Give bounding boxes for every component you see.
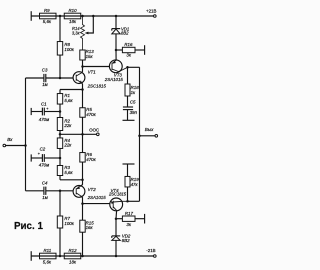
wire rail to VD1 [115,16,117,29]
wire C4 to VT2 base [46,190,74,192]
svg-text:R9: R9 [44,8,50,13]
svg-text:18к: 18к [69,19,77,24]
svg-text:8В2: 8В2 [121,30,129,35]
svg-text:8В2: 8В2 [122,238,130,243]
svg-text:-21В: -21В [146,248,155,253]
label R12 [69,248,78,253]
capacitor C1 470u [31,108,60,116]
value R3 5.6k [64,170,73,175]
svg-text:2SA1015: 2SA1015 [87,195,107,200]
capacitor C3 [44,74,46,82]
label C1 [41,102,47,107]
terminal -21V [154,255,157,258]
node VT1 collector / VT3 base [81,65,84,68]
node rail-R15 [81,255,84,258]
label C5 [130,100,136,105]
value R14 3.3k [72,31,81,36]
resistor R6 [80,134,85,180]
resistor R15 [80,220,85,232]
svg-text:C3: C3 [42,68,48,73]
value R18 1k [131,90,136,95]
label VT1 type 2SC1815 [87,83,107,88]
node rail-R14 [81,15,84,18]
svg-text:470к: 470к [86,157,96,162]
svg-text:15к: 15к [86,54,94,59]
svg-text:5,6к: 5,6к [43,19,52,24]
label VT2 [88,187,97,192]
wire input to C3 [26,77,44,79]
svg-text:5,6к: 5,6к [64,98,73,103]
svg-text:R16: R16 [124,42,133,47]
wire VT2 emitter [81,180,82,186]
svg-text:1м: 1м [42,82,47,87]
wire VT4 base [83,203,111,205]
node VT4 collector [126,200,129,203]
svg-text:470к: 470к [86,112,96,117]
value C1 470u [39,117,49,122]
svg-text:18к: 18к [69,259,77,264]
value C2 470u [39,162,49,167]
wire node to R16 [116,49,122,51]
value C5 39p [130,110,138,115]
node output [138,135,141,138]
svg-text:R17: R17 [125,211,134,216]
svg-text:2SC1815: 2SC1815 [108,192,127,197]
caption Ris. 1 [14,221,43,232]
node R8-base junction [59,77,62,80]
label R9 [44,8,50,13]
resistor R7 [57,216,62,228]
label R18 [131,85,140,90]
svg-text:Вх: Вх [7,137,13,142]
node rail-VD1 [115,15,118,18]
node rail-wiper [92,15,95,18]
node VT3 collector [126,66,129,69]
value R13 15k [86,54,94,59]
resistor R18 [125,84,130,96]
wire VT1 collector [82,67,83,73]
label VT3 [114,73,123,78]
svg-text:VT1: VT1 [88,69,97,74]
svg-text:470м: 470м [39,117,49,122]
wire VT4 emitter [115,210,118,218]
transistor VT3 2SA1015 [109,60,127,73]
terminal output Vyh [155,135,158,138]
label R14 [72,26,80,31]
wire node to R17 [116,218,122,220]
wire R18 to C5 [127,96,129,107]
svg-text:100к: 100к [64,47,74,52]
node A (R9-R10 junction) [59,15,62,18]
common T-bar R17 [144,214,146,224]
wire VT3 collector to output column [128,66,140,68]
svg-text:R10: R10 [69,8,78,13]
resistor R13 [80,50,85,60]
value R8 100k [64,47,74,52]
wire Vx to input line [6,145,26,147]
node R2-R4 junction [59,133,62,136]
node VT4 emitter / R17 [115,217,118,220]
node C1 junction [59,110,62,113]
resistor R9 [40,13,57,19]
wire R17 to T-bar [135,218,145,220]
svg-text:2SA1015: 2SA1015 [104,77,124,82]
node rail-VD2 [115,255,118,258]
svg-text:5,6к: 5,6к [64,170,73,175]
common T-bar R19 [123,163,135,165]
common T-bar top left [30,11,32,21]
value R17 3k [126,222,131,227]
transistor VT4 2SC1815 [110,198,128,211]
label R4 [64,138,70,143]
wire VT3 base [83,66,110,68]
svg-text:C5: C5 [130,100,136,105]
wire R19 to node [127,187,129,201]
wire R16 to T-bar [135,49,145,51]
value R19 47k [131,182,139,187]
wire R15 to rail [82,232,84,256]
svg-text:Рис. 1: Рис. 1 [14,221,43,232]
wire node A to R8 [59,16,61,42]
wire OOC [60,133,96,135]
node VD1-R16-VT3 [115,49,118,52]
value R12 18k [69,259,77,264]
wire R3 to VT2 emitter [60,179,83,181]
capacitor C5 39p [123,107,133,120]
svg-text:16к: 16к [86,225,94,230]
value R9 5.6k [43,19,52,24]
wire VT3 emitter [115,50,117,60]
terminal OOC [97,133,100,136]
node input line [24,144,27,147]
value R4 22k [63,143,72,148]
transistor VT2 2SA1015 [73,186,85,198]
value R7 100k [64,221,74,226]
value R1 5.6k [64,98,73,103]
node R5-R6 junction [81,133,84,136]
polarity + C2 [38,152,41,156]
label -21V [146,248,155,253]
resistor R17 [122,216,135,221]
label R2 [64,118,70,123]
value R16 3k [126,53,131,58]
wire VT4 collector to output column [128,200,140,202]
node C2 junction [59,157,62,160]
label R16 [124,42,133,47]
value R5 470k [86,112,96,117]
resistor R19 [125,176,130,187]
label VT1 [88,69,97,74]
label Vyh [145,127,154,132]
svg-text:470м: 470м [39,162,49,167]
label VT4 [111,188,120,193]
resistor R10 [64,13,81,19]
value VD1 8V2 [121,30,129,35]
wire T-bar to R19 [127,164,129,176]
wire to output terminal [140,135,156,137]
transistor VT1 2SC1815 [73,72,85,84]
node VT1 emitter [81,88,84,91]
svg-text:3,3к: 3,3к [72,31,81,36]
label VT4 type 2SC1815 [108,192,127,197]
label R11 [44,248,52,253]
svg-text:C1: C1 [41,102,47,107]
value R15 16k [86,225,94,230]
resistor R5 [80,90,85,135]
label VD1 [121,26,129,31]
label R3 [64,165,70,170]
svg-text:C2: C2 [40,146,46,151]
svg-text:100к: 100к [64,221,74,226]
resistor R11 [40,253,57,259]
wire C3 to VT1 base [46,77,74,79]
svg-text:47к: 47к [131,182,139,187]
label R10 [69,8,78,13]
label R5 [86,107,92,112]
resistor R16 [122,47,135,52]
wire input vertical line [25,78,27,191]
wire node to R7 [59,191,61,216]
wire wiper R14 [88,16,94,33]
wire R7 to bottom rail [59,228,61,256]
label VT3 type 2SA1015 [104,77,124,82]
wire top +21V rail [31,15,153,17]
label C2 [40,146,46,151]
node VT2 collector / VT4 base [81,202,84,205]
label Vx [7,137,13,142]
value R2 22k [63,123,72,128]
resistor R12 [64,253,81,259]
resistor R4 [57,134,62,158]
label R8 [64,42,70,47]
wire emitter to R1 [60,89,83,91]
terminal +21V [154,15,157,18]
wiper arrow R14 [85,32,89,35]
label OOC [89,127,99,132]
wire input to C4 [26,190,44,192]
label C3 [42,68,48,73]
wire R13 to node [82,60,84,67]
terminal input Vx [3,144,6,147]
node VT2 emitter [81,179,84,182]
diode VD2 zener 8V2 [112,236,120,256]
svg-text:Вых: Вых [145,127,154,132]
wire output column [139,67,141,201]
svg-text:+21В: +21В [146,8,156,13]
label R17 [125,211,134,216]
node A' (R11-R12 junction) [59,255,62,258]
wire node to VD2 [115,219,117,236]
wire node to R15 [82,204,84,220]
wire VT1 emitter [81,83,84,90]
label R19 [131,177,140,182]
resistor R1 [57,90,62,112]
polarity + C1 [46,107,49,111]
value C3 1u [42,82,47,87]
label C4 [42,180,48,185]
common T-bar bottom left [30,251,32,261]
svg-text:39п: 39п [130,110,138,115]
diode VD1 zener 8V2 [112,29,120,50]
wire R8 to VT1 base node [59,55,61,78]
wire VT2 collector [81,196,83,204]
svg-text:22к: 22к [63,123,72,128]
common T-bar R16 [144,45,146,55]
svg-text:1м: 1м [42,195,47,200]
value VD2 8V2 [122,238,130,243]
resistor R3 [57,158,62,180]
resistor R2 [57,112,62,135]
label R6 [86,152,92,157]
label R15 [86,220,95,225]
common T-bar C5 [123,119,135,121]
value R10 18k [69,19,77,24]
svg-text:ООС: ООС [89,127,99,132]
wire node to R18 [127,67,129,84]
svg-text:R12: R12 [69,248,78,253]
svg-text:22к: 22к [63,143,72,148]
svg-text:VT2: VT2 [88,187,97,192]
label R7 [64,216,70,221]
label VD2 [122,233,131,238]
label VT2 type 2SA1015 [87,195,107,200]
svg-text:R11: R11 [44,248,52,253]
label R13 [86,49,95,54]
capacitor C4 [44,187,46,195]
node R7-base junction [59,190,62,193]
value C4 1u [42,195,47,200]
trimmer R14 3.3k [81,16,85,50]
svg-text:2SC1815: 2SC1815 [87,83,107,88]
resistor R8 [57,42,62,56]
label R1 [64,93,70,98]
value R6 470k [86,157,96,162]
value R11 5.6k [43,259,52,264]
svg-text:C4: C4 [42,180,48,185]
label +21V [146,8,156,13]
svg-text:5,6к: 5,6к [43,259,52,264]
capacitor C2 470u [31,154,60,162]
wire bottom -21V rail [31,255,153,257]
